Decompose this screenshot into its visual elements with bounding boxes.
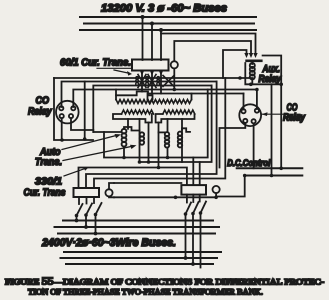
right box top stubs	[192, 158, 194, 186]
2400V bus 6	[66, 263, 213, 265]
node SW	[60, 138, 64, 142]
CT box (60/1 current transformers)	[132, 60, 169, 71]
wire coil3 bottom	[167, 148, 169, 158]
wire pair bottom	[114, 196, 216, 198]
wire NW lead right relay	[243, 94, 245, 110]
switch left b	[84, 197, 92, 229]
transformer T2 secondary winding	[163, 110, 195, 114]
wire SE lead right relay	[253, 123, 255, 168]
wire NW lead left relay	[62, 82, 217, 108]
leader arrow to CT box	[114, 70, 128, 73]
auto-trans coil 1	[122, 129, 127, 147]
transformer T2 primary winding	[148, 100, 192, 104]
wire SE lead left relay	[71, 118, 93, 130]
wire NE lead right relay	[256, 90, 258, 110]
wire He to right relay NW	[192, 93, 244, 95]
label CO Relay right	[262, 113, 300, 115]
wire jog H y180.5	[94, 78, 225, 188]
bus line 2 (13200V phase B)	[84, 23, 254, 25]
node on bus 3	[159, 28, 163, 32]
330/1 CT box left	[74, 188, 100, 197]
wire CT secondary Ha	[54, 77, 253, 79]
wire aux mid long vertical	[271, 84, 273, 175]
switch right a	[184, 195, 191, 260]
leader arrow 330	[64, 169, 85, 177]
svg-text:330/1: 330/1	[35, 177, 62, 188]
node below circle	[173, 88, 177, 92]
aux relay box	[245, 56, 281, 85]
CT bowtie 2	[146, 71, 156, 94]
wire elbow to aux relay 1	[161, 34, 256, 55]
potential transformer circle	[171, 61, 178, 68]
circle left of pair	[105, 189, 112, 196]
node Hd right	[255, 88, 259, 92]
transformer T1 primary winding	[116, 100, 152, 104]
circle right of pair	[213, 186, 220, 193]
node on bus 2	[150, 22, 154, 26]
svg-text:Cur. Trans: Cur. Trans	[24, 188, 66, 199]
node DC2 left	[243, 174, 247, 178]
node on DC2	[270, 174, 274, 178]
node pair-left	[174, 196, 178, 200]
switch left a	[75, 197, 83, 222]
node on DC1	[279, 167, 283, 171]
node jog2b	[147, 160, 151, 164]
node circle-right	[214, 196, 218, 200]
CT bowtie 3	[157, 71, 174, 94]
CO relay left	[56, 101, 79, 124]
wire elbow to aux relay 3	[223, 50, 247, 78]
bus line 3 (13200V phase C)	[80, 29, 256, 31]
330/1 CT box right	[181, 185, 206, 195]
node jog1	[122, 156, 126, 160]
wire coil1 top	[124, 127, 140, 131]
svg-text:60/1 Cur. Trans.: 60/1 Cur. Trans.	[60, 58, 131, 69]
svg-text:2400V·2ø·60~3Wire Buses.: 2400V·2ø·60~3Wire Buses.	[41, 237, 176, 249]
node jog2	[138, 160, 142, 164]
leader arrow auto 2	[63, 147, 131, 161]
transformer T2 primary cap	[148, 94, 192, 100]
2400V bus 1	[63, 220, 213, 222]
lead below T1 a	[127, 119, 129, 129]
CO relay right	[239, 104, 261, 126]
switch right b	[191, 195, 198, 266]
auto-trans coil 3	[165, 132, 169, 147]
node Ha right	[238, 76, 242, 80]
wire drop phase B	[151, 24, 153, 61]
transformer T2 secondary bracket	[156, 114, 195, 123]
auto-trans coil 2	[140, 132, 144, 144]
svg-text:TION OF THREE-PHASE TWO-PHASE: TION OF THREE-PHASE TWO-PHASE TRANSFORME…	[28, 288, 263, 297]
wire vertical x84.7	[84, 82, 86, 140]
svg-text:Relay: Relay	[283, 113, 306, 124]
bus line 1 (13200V phase A)	[80, 16, 256, 18]
2400V bus 2	[55, 226, 220, 228]
node aux box b	[279, 83, 283, 87]
node aux box a	[249, 83, 253, 87]
lead coil2 spine	[139, 119, 141, 162]
transformer T1 secondary bracket	[113, 114, 152, 123]
wire jog H y164	[140, 86, 212, 163]
wire coil1 left	[93, 131, 121, 133]
wire SW lead left relay	[61, 118, 63, 140]
wire T1 left lead	[115, 90, 117, 96]
2400V bus 4	[64, 251, 221, 253]
wire circle-right stub	[215, 193, 217, 197]
center lead pair a	[148, 123, 150, 163]
2400V bus 3	[58, 233, 215, 235]
wire circle to node	[173, 68, 175, 89]
wire jog H y158.5	[104, 90, 208, 158]
svg-text:CO: CO	[36, 96, 50, 107]
leader arrow auto 1	[62, 136, 116, 150]
wire DC2 to pair bottom	[216, 176, 245, 197]
wire coil4 step lead	[182, 128, 190, 132]
center lead pair b	[158, 123, 160, 168]
svg-text:13200 V. 3 ø -60~ Buses: 13200 V. 3 ø -60~ Buses	[101, 3, 227, 15]
wire coil3 feed	[159, 131, 165, 133]
wire NE lead left relay	[73, 90, 257, 108]
wire coil1 bottom	[123, 146, 125, 157]
wire jog H y176.5	[86, 82, 217, 189]
switch right c	[199, 195, 206, 268]
lead below T2 a	[167, 119, 169, 132]
wire drop phase A	[142, 17, 144, 60]
wire aux right long vertical	[280, 84, 282, 168]
wire pair top	[114, 182, 181, 184]
wire SW lead right relay	[220, 123, 246, 168]
wire left column	[54, 78, 93, 140]
wire jog H y170.3	[79, 168, 187, 189]
arrowheads under CT box	[140, 71, 163, 76]
wire CT secondary Hc	[93, 86, 211, 133]
aux relay contact bar	[245, 60, 262, 63]
svg-text:Trans.: Trans.	[35, 157, 62, 168]
DC control line 1	[237, 167, 303, 169]
svg-text:Relay: Relay	[28, 107, 53, 118]
aux relay coil	[250, 63, 255, 79]
2400V bus 5	[61, 257, 218, 259]
wire drop phase C	[160, 30, 162, 60]
wire circle-left stubs	[109, 183, 114, 189]
node jog3	[157, 166, 161, 170]
transformer T1 primary cap	[116, 92, 153, 100]
auto-trans coil 4	[178, 132, 182, 148]
CT bowtie 1	[136, 71, 146, 92]
node jog1b	[166, 156, 170, 160]
svg-text:FIGURE 55—DIAGRAM OF CONNECTIO: FIGURE 55—DIAGRAM OF CONNECTIONS FOR DIF…	[5, 277, 324, 288]
node on bus 1	[141, 15, 145, 19]
transformer T1 secondary winding	[122, 110, 154, 114]
node x84.7 bottom	[83, 137, 87, 141]
label 60/1 underline	[97, 67, 132, 69]
DC control line 2	[245, 175, 303, 177]
switch left c	[94, 197, 102, 235]
wire elbow to aux relay 2	[174, 41, 251, 61]
lead coil4 spine	[181, 119, 183, 162]
svg-text:Relay: Relay	[259, 74, 283, 85]
